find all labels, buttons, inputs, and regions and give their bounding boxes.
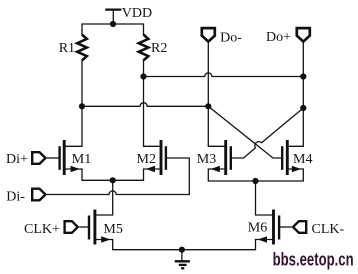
svg-text:Do-: Do- bbox=[220, 30, 242, 45]
svg-text:CLK+: CLK+ bbox=[24, 222, 60, 237]
svg-text:M3: M3 bbox=[197, 152, 216, 167]
svg-text:bbs.eetop.cn: bbs.eetop.cn bbox=[273, 249, 354, 269]
svg-text:Do+: Do+ bbox=[266, 30, 291, 45]
svg-text:M1: M1 bbox=[72, 152, 91, 167]
svg-text:M5: M5 bbox=[103, 222, 122, 237]
svg-text:Di-: Di- bbox=[6, 190, 25, 205]
svg-text:M6: M6 bbox=[248, 221, 267, 236]
svg-text:Di+: Di+ bbox=[6, 152, 28, 167]
svg-text:VDD: VDD bbox=[122, 6, 152, 21]
svg-text:CLK-: CLK- bbox=[312, 222, 345, 237]
svg-text:M2: M2 bbox=[137, 152, 156, 167]
svg-text:R2: R2 bbox=[151, 41, 167, 56]
svg-text:R1: R1 bbox=[59, 41, 75, 56]
svg-text:M4: M4 bbox=[293, 152, 312, 167]
